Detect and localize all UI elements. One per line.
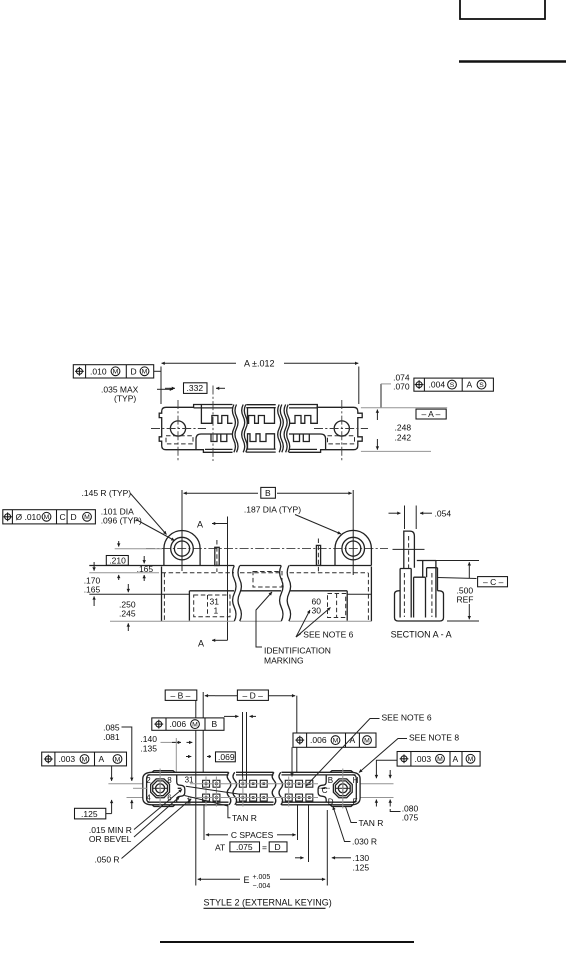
svg-text:.248: .248: [395, 423, 412, 433]
svg-text:.010: .010: [90, 366, 107, 376]
svg-text:+.005: +.005: [253, 874, 271, 881]
svg-text:OR BEVEL: OR BEVEL: [89, 834, 132, 844]
svg-text:.081: .081: [103, 732, 120, 742]
break lines front view: [233, 566, 291, 622]
fcf right mid .006 M A M: [292, 733, 376, 777]
see note 6 leader: [306, 713, 432, 786]
right key: [318, 769, 359, 809]
feature control frame .006 M B: [152, 718, 224, 730]
svg-text:D: D: [131, 366, 137, 376]
contact pin right: [316, 539, 320, 573]
svg-text:SEE NOTE 8: SEE NOTE 8: [409, 733, 459, 743]
datum -A- flag: [361, 408, 447, 419]
title block rule line: [459, 60, 566, 62]
small arrows pair: [186, 756, 211, 758]
hidden pocket right: [328, 436, 355, 444]
dimension .248 / .242: [361, 410, 431, 452]
section arrow A bottom: [198, 639, 228, 649]
note TAN R left: [185, 786, 257, 823]
left section comb top: [201, 405, 232, 423]
dim .080 .075: [390, 803, 418, 822]
datum -C- flag: [438, 577, 508, 587]
hidden line below top edge: [162, 572, 369, 574]
ext line centerline level: [115, 548, 162, 550]
body right edge: [368, 567, 371, 622]
feature control frame dia .010 M C D M: [3, 510, 96, 524]
svg-text:– B –: – B –: [171, 690, 191, 700]
left section pocket and comb bottom: [196, 434, 233, 450]
section title: [391, 630, 452, 640]
svg-text:A: A: [467, 380, 473, 390]
svg-text:A: A: [197, 520, 203, 530]
dimension .074 / .070: [381, 373, 410, 408]
ext line hidden level: [89, 572, 159, 574]
svg-text:.096 (TYP): .096 (TYP): [101, 516, 142, 526]
contact squares: [190, 777, 318, 807]
left mounting hole: [170, 421, 185, 436]
svg-text:D: D: [275, 842, 281, 852]
svg-text:A: A: [198, 639, 204, 649]
fcf right low .003 M A M: [376, 752, 480, 779]
dim .250 / .245: [119, 584, 136, 631]
note .101 DIA .096 (TYP): [101, 507, 175, 541]
body left edge: [162, 567, 165, 622]
contact pin left: [215, 540, 219, 572]
hidden contact area 60/30: [312, 594, 346, 618]
svg-text:.135: .135: [140, 744, 157, 754]
top view body: left section: [151, 386, 233, 462]
arrows at left end: [108, 766, 142, 814]
shoulder line: [189, 590, 347, 592]
feature control frame .004 S A S: [414, 378, 494, 391]
svg-text:MARKING: MARKING: [264, 656, 304, 666]
svg-text:8: 8: [167, 776, 172, 785]
svg-text:Ø .010: Ø .010: [16, 512, 42, 522]
svg-text:H: H: [353, 776, 359, 785]
dim .500 REF: [423, 561, 479, 622]
svg-text:SEE NOTE 6: SEE NOTE 6: [303, 629, 353, 639]
note .015 MIN R OR BEVEL: [89, 789, 182, 844]
svg-text:.125: .125: [81, 809, 98, 819]
body bottom edge: [110, 620, 371, 622]
feature control frame .010 M D M: [73, 365, 161, 378]
svg-text:31: 31: [185, 776, 194, 785]
svg-text:.332: .332: [187, 383, 204, 393]
svg-text:.210: .210: [109, 555, 126, 565]
identification marking zone: [253, 572, 282, 588]
dim .170 / .165: [84, 562, 101, 606]
see note 8 leader: [359, 733, 459, 773]
right end ext lines and arrows: [360, 770, 393, 807]
svg-text:– C –: – C –: [483, 577, 504, 587]
break lines middle-left: [242, 405, 248, 453]
right end pocket: [347, 591, 371, 621]
svg-text:.069: .069: [218, 752, 235, 762]
svg-text:(TYP): (TYP): [114, 394, 136, 404]
svg-text:−.004: −.004: [253, 883, 271, 890]
svg-text:.054: .054: [435, 509, 452, 519]
right mounting lug: [335, 530, 371, 565]
svg-text:TAN R: TAN R: [232, 813, 257, 823]
svg-text:.006: .006: [310, 735, 327, 745]
svg-text:SECTION A - A: SECTION A - A: [391, 630, 452, 640]
svg-text:1: 1: [214, 606, 219, 616]
svg-text:STYLE 2 (EXTERNAL KEYING): STYLE 2 (EXTERNAL KEYING): [204, 898, 332, 908]
left key: [133, 769, 194, 809]
svg-text:– A –: – A –: [422, 409, 441, 419]
svg-text:A ±.012: A ±.012: [244, 359, 274, 369]
dim .085 .081: [103, 722, 132, 781]
hidden pocket left: [166, 436, 193, 444]
hidden contact area 31/1: [194, 595, 230, 617]
svg-text:.050 R: .050 R: [95, 854, 120, 864]
right section comb top: [289, 405, 317, 423]
svg-text:.030 R: .030 R: [352, 837, 377, 847]
svg-text:.145 R (TYP): .145 R (TYP): [82, 488, 132, 498]
svg-text:.165: .165: [84, 584, 101, 594]
svg-text:A: A: [99, 754, 105, 764]
note TAN R right: [346, 807, 384, 829]
note .187 DIA (TYP): [244, 505, 341, 534]
top view body: middle section: [232, 405, 275, 453]
svg-text:B: B: [265, 488, 271, 498]
section arrow A top: [197, 517, 228, 641]
dim C SPACES AT .075 = D: [204, 805, 298, 853]
svg-text:D: D: [71, 512, 77, 522]
svg-text:30: 30: [312, 606, 322, 616]
svg-text:.003: .003: [59, 754, 76, 764]
svg-text:A: A: [453, 754, 459, 764]
svg-text:B: B: [212, 719, 218, 729]
lug tab in section: [393, 531, 425, 570]
dimension .332: [165, 383, 225, 394]
svg-text:C SPACES: C SPACES: [231, 830, 274, 840]
right section pocket and comb bottom: [289, 434, 326, 450]
long extension line B: [196, 692, 297, 886]
datum -B- flag: [165, 690, 197, 700]
main centerline: [146, 548, 388, 550]
dim .210: [106, 541, 128, 580]
body top edge: [89, 565, 371, 567]
svg-text:AT: AT: [215, 843, 225, 853]
svg-text:F: F: [353, 798, 358, 807]
bottom rule line: [160, 941, 414, 943]
leader see note 6 (front): [296, 608, 354, 640]
svg-text:.006: .006: [170, 719, 187, 729]
section base: [395, 591, 444, 621]
svg-text:C: C: [60, 512, 66, 522]
svg-text:2: 2: [146, 776, 151, 785]
note .030 R: [333, 807, 377, 847]
svg-text:.245: .245: [119, 609, 136, 619]
note .035 MAX (TYP): [101, 385, 173, 404]
break lines middle-right: [278, 405, 284, 453]
body outline bottom view: [143, 772, 360, 805]
right mounting hole: [334, 421, 349, 436]
dim .165: [137, 556, 154, 581]
dim under fcf B: [224, 712, 256, 780]
svg-text:REF: REF: [457, 595, 474, 605]
svg-text:.003: .003: [415, 754, 432, 764]
dimension A ±.012: [161, 359, 359, 404]
svg-text:.004: .004: [429, 380, 446, 390]
left mounting lug: [164, 531, 200, 566]
left end pocket: [89, 591, 189, 621]
dim .054: [389, 506, 452, 530]
title block box top right: [460, 0, 545, 19]
dim .069 boxed: [216, 752, 236, 762]
dim .130 .125: [295, 805, 369, 873]
dimension B: [182, 487, 353, 575]
svg-text:.075: .075: [402, 813, 419, 823]
dim .125 boxed: [75, 808, 112, 819]
section body walls: [395, 561, 444, 622]
svg-text:.125: .125: [353, 862, 370, 872]
top view body: right section: [278, 400, 368, 461]
feature control frame left .003 M A M: [42, 752, 127, 766]
note .050 R: [95, 799, 192, 865]
svg-text:– D –: – D –: [243, 690, 264, 700]
svg-text:=: =: [262, 843, 267, 853]
svg-text:4: 4: [146, 794, 151, 803]
leader identification marking: [256, 592, 331, 666]
svg-text:D: D: [328, 798, 334, 807]
svg-text:SEE NOTE 6: SEE NOTE 6: [382, 713, 432, 723]
svg-text:E: E: [244, 875, 250, 885]
note .145 R (TYP): [82, 488, 167, 534]
dim B to D line: [205, 695, 295, 697]
svg-text:.187 DIA (TYP): .187 DIA (TYP): [244, 505, 301, 515]
svg-text:IDENTIFICATION: IDENTIFICATION: [264, 646, 331, 656]
svg-text:C: C: [322, 786, 328, 795]
svg-text:.070: .070: [393, 382, 410, 392]
datum -D- flag: [237, 690, 268, 700]
svg-text:TAN R: TAN R: [359, 818, 384, 828]
dim E +.005 -.004: [198, 862, 328, 890]
dim .140 .135: [140, 734, 192, 772]
svg-text:B: B: [328, 776, 333, 785]
svg-text:.242: .242: [395, 433, 412, 443]
svg-text:.075: .075: [236, 842, 253, 852]
style 2 caption: [204, 898, 332, 909]
